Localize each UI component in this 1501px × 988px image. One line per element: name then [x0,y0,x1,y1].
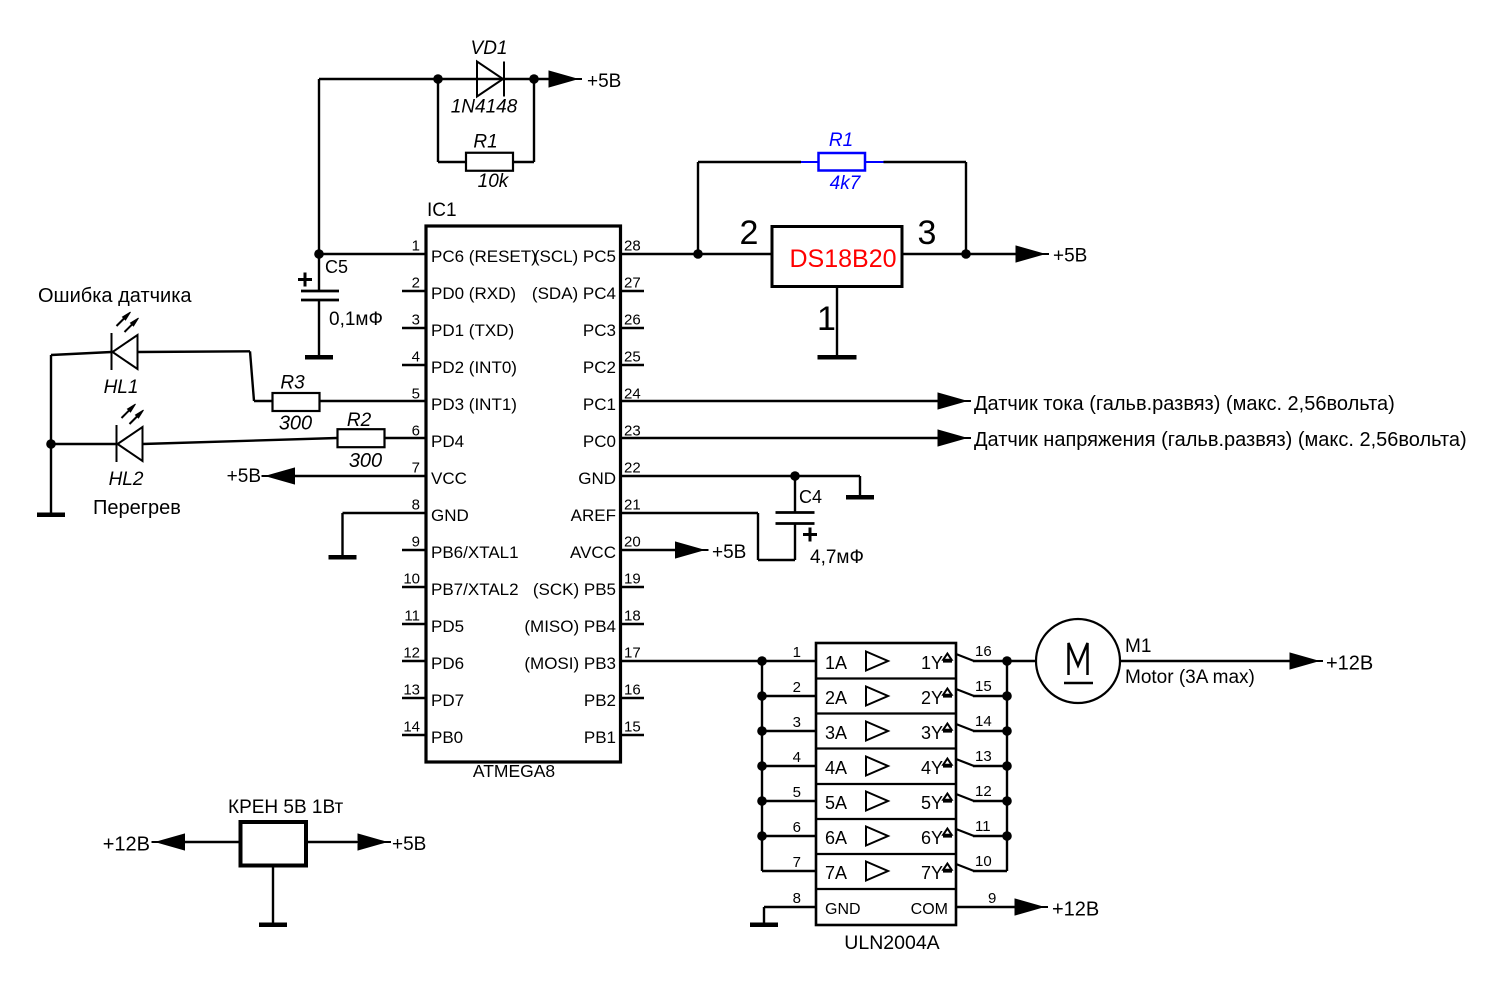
svg-text:6Y: 6Y [921,828,943,848]
svg-text:15: 15 [624,719,641,736]
svg-text:25: 25 [624,349,641,366]
svg-text:+5В: +5В [392,834,426,855]
svg-text:R2: R2 [347,410,372,431]
svg-text:PC1: PC1 [583,395,616,414]
svg-text:1: 1 [412,238,420,255]
svg-text:PD0 (RXD): PD0 (RXD) [431,284,516,303]
svg-text:300: 300 [279,413,312,435]
svg-text:PD1 (TXD): PD1 (TXD) [431,321,514,340]
svg-text:1N4148: 1N4148 [451,97,518,118]
svg-text:КРЕН 5В 1Вт: КРЕН 5В 1Вт [228,797,344,818]
svg-text:+5B: +5B [712,542,746,563]
svg-text:HL2: HL2 [109,469,144,490]
svg-text:Motor (3A max): Motor (3A max) [1125,667,1255,688]
svg-text:+12В: +12В [103,834,150,856]
svg-text:(SDA) PC4: (SDA) PC4 [532,284,616,303]
svg-text:+5B: +5B [587,71,621,92]
svg-text:4,7мФ: 4,7мФ [810,547,864,568]
svg-text:PC6 (RESET): PC6 (RESET) [431,247,537,266]
svg-text:7A: 7A [825,863,847,883]
svg-text:M1: M1 [1125,636,1151,657]
svg-text:13: 13 [975,748,992,765]
svg-text:Датчик тока (гальв.развяз) (ма: Датчик тока (гальв.развяз) (макс. 2,56во… [974,393,1395,415]
svg-text:PB1: PB1 [584,728,616,747]
svg-text:11: 11 [404,608,420,625]
svg-text:PD6: PD6 [431,654,464,673]
svg-text:8: 8 [412,497,420,514]
svg-text:(SCK) PB5: (SCK) PB5 [533,580,616,599]
svg-text:12: 12 [403,645,420,662]
svg-text:19: 19 [624,571,641,588]
svg-text:ULN2004A: ULN2004A [844,932,939,954]
svg-text:7: 7 [412,460,420,477]
svg-text:+5B: +5B [227,466,261,487]
svg-text:COM: COM [911,901,948,918]
svg-text:PD3 (INT1): PD3 (INT1) [431,395,517,414]
svg-text:GND: GND [825,901,861,918]
svg-text:3: 3 [793,714,801,731]
svg-text:10k: 10k [478,171,510,192]
svg-text:HL1: HL1 [104,377,139,398]
svg-text:7Y: 7Y [921,863,943,883]
svg-text:VD1: VD1 [471,38,508,59]
svg-text:11: 11 [975,818,991,835]
svg-text:21: 21 [624,497,641,514]
svg-text:28: 28 [624,238,641,255]
svg-text:PB6/XTAL1: PB6/XTAL1 [431,543,519,562]
svg-text:DS18B20: DS18B20 [789,245,896,273]
svg-text:2: 2 [412,275,420,292]
svg-text:(MISO) PB4: (MISO) PB4 [524,617,616,636]
svg-text:PD4: PD4 [431,432,464,451]
svg-text:5Y: 5Y [921,793,943,813]
svg-text:4A: 4A [825,758,847,778]
svg-text:2A: 2A [825,688,847,708]
svg-text:ATMEGA8: ATMEGA8 [473,761,555,781]
svg-text:16: 16 [624,682,641,699]
svg-text:22: 22 [624,460,641,477]
svg-text:4k7: 4k7 [830,173,862,194]
svg-text:3A: 3A [825,723,847,743]
svg-text:15: 15 [975,678,992,695]
svg-text:2: 2 [793,679,801,696]
svg-text:1: 1 [817,300,836,338]
svg-text:17: 17 [624,645,641,662]
svg-text:GND: GND [578,469,616,488]
svg-text:+12B: +12B [1052,899,1099,921]
svg-text:4: 4 [412,349,420,366]
svg-text:C4: C4 [799,487,822,507]
svg-text:9: 9 [988,890,996,907]
svg-text:Ошибка датчика: Ошибка датчика [38,285,192,307]
svg-text:14: 14 [975,713,992,730]
svg-text:0,1мФ: 0,1мФ [329,309,383,330]
svg-text:(MOSI) PB3: (MOSI) PB3 [524,654,616,673]
svg-text:14: 14 [403,719,420,736]
svg-text:PC0: PC0 [583,432,616,451]
svg-text:3: 3 [918,214,937,252]
svg-text:C5: C5 [325,257,348,277]
svg-text:R1: R1 [829,130,853,151]
svg-text:1: 1 [793,644,801,661]
svg-text:26: 26 [624,312,641,329]
svg-text:10: 10 [975,853,992,870]
svg-text:PC2: PC2 [583,358,616,377]
svg-text:(SCL) PC5: (SCL) PC5 [534,247,616,266]
svg-text:27: 27 [624,275,641,292]
svg-text:PB0: PB0 [431,728,463,747]
svg-text:Перегрев: Перегрев [93,497,181,519]
svg-text:PB7/XTAL2: PB7/XTAL2 [431,580,519,599]
svg-text:16: 16 [975,643,992,660]
svg-text:PD2 (INT0): PD2 (INT0) [431,358,517,377]
svg-text:Датчик напряжения (гальв.развя: Датчик напряжения (гальв.развяз) (макс. … [974,429,1467,451]
svg-text:300: 300 [349,450,382,472]
svg-text:IC1: IC1 [427,200,457,221]
svg-text:3: 3 [412,312,420,329]
svg-text:+12B: +12B [1326,653,1373,675]
svg-text:PD5: PD5 [431,617,464,636]
svg-text:5A: 5A [825,793,847,813]
svg-text:4Y: 4Y [921,758,943,778]
svg-text:8: 8 [793,890,801,907]
svg-text:5: 5 [793,784,801,801]
svg-text:7: 7 [793,854,801,871]
svg-text:1Y: 1Y [921,653,943,673]
svg-text:6: 6 [793,819,801,836]
svg-text:6A: 6A [825,828,847,848]
svg-text:18: 18 [624,608,641,625]
svg-text:+5B: +5B [1053,246,1087,267]
svg-text:AREF: AREF [571,506,616,525]
svg-text:PD7: PD7 [431,691,464,710]
svg-text:PC3: PC3 [583,321,616,340]
svg-text:2: 2 [740,214,759,252]
svg-text:PB2: PB2 [584,691,616,710]
svg-text:4: 4 [793,749,801,766]
svg-text:20: 20 [624,534,641,551]
svg-text:12: 12 [975,783,992,800]
svg-text:13: 13 [403,682,420,699]
svg-text:3Y: 3Y [921,723,943,743]
svg-text:AVCC: AVCC [570,543,616,562]
svg-text:10: 10 [403,571,420,588]
svg-text:VCC: VCC [431,469,467,488]
svg-text:R1: R1 [473,132,497,153]
svg-text:GND: GND [431,506,469,525]
svg-text:R3: R3 [280,373,305,394]
svg-text:1A: 1A [825,653,847,673]
svg-text:9: 9 [412,534,420,551]
svg-text:2Y: 2Y [921,688,943,708]
